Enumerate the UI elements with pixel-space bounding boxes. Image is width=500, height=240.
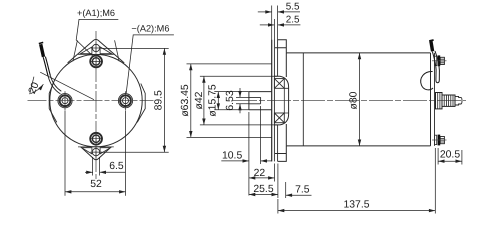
svg-text:ø15.75: ø15.75 bbox=[207, 84, 218, 117]
svg-text:+(A1);M6: +(A1);M6 bbox=[77, 8, 115, 18]
svg-text:ø42: ø42 bbox=[194, 91, 205, 109]
svg-text:7.5: 7.5 bbox=[295, 185, 310, 196]
svg-text:2.5: 2.5 bbox=[286, 15, 300, 26]
svg-text:−(A2):M6: −(A2):M6 bbox=[131, 24, 169, 34]
svg-text:52: 52 bbox=[90, 179, 102, 190]
svg-text:5.5: 5.5 bbox=[286, 2, 300, 13]
svg-text:ø63.45: ø63.45 bbox=[180, 84, 191, 117]
svg-text:20.5: 20.5 bbox=[440, 149, 460, 160]
svg-text:137.5: 137.5 bbox=[343, 199, 369, 210]
svg-text:ø80: ø80 bbox=[348, 91, 359, 109]
svg-text:22: 22 bbox=[254, 168, 266, 179]
svg-text:6.5: 6.5 bbox=[109, 161, 124, 172]
svg-text:6.53: 6.53 bbox=[225, 90, 236, 110]
svg-text:25.5: 25.5 bbox=[253, 184, 273, 195]
svg-text:20: 20 bbox=[27, 81, 42, 96]
svg-text:10.5: 10.5 bbox=[222, 150, 242, 161]
svg-text:89.5: 89.5 bbox=[154, 90, 165, 110]
